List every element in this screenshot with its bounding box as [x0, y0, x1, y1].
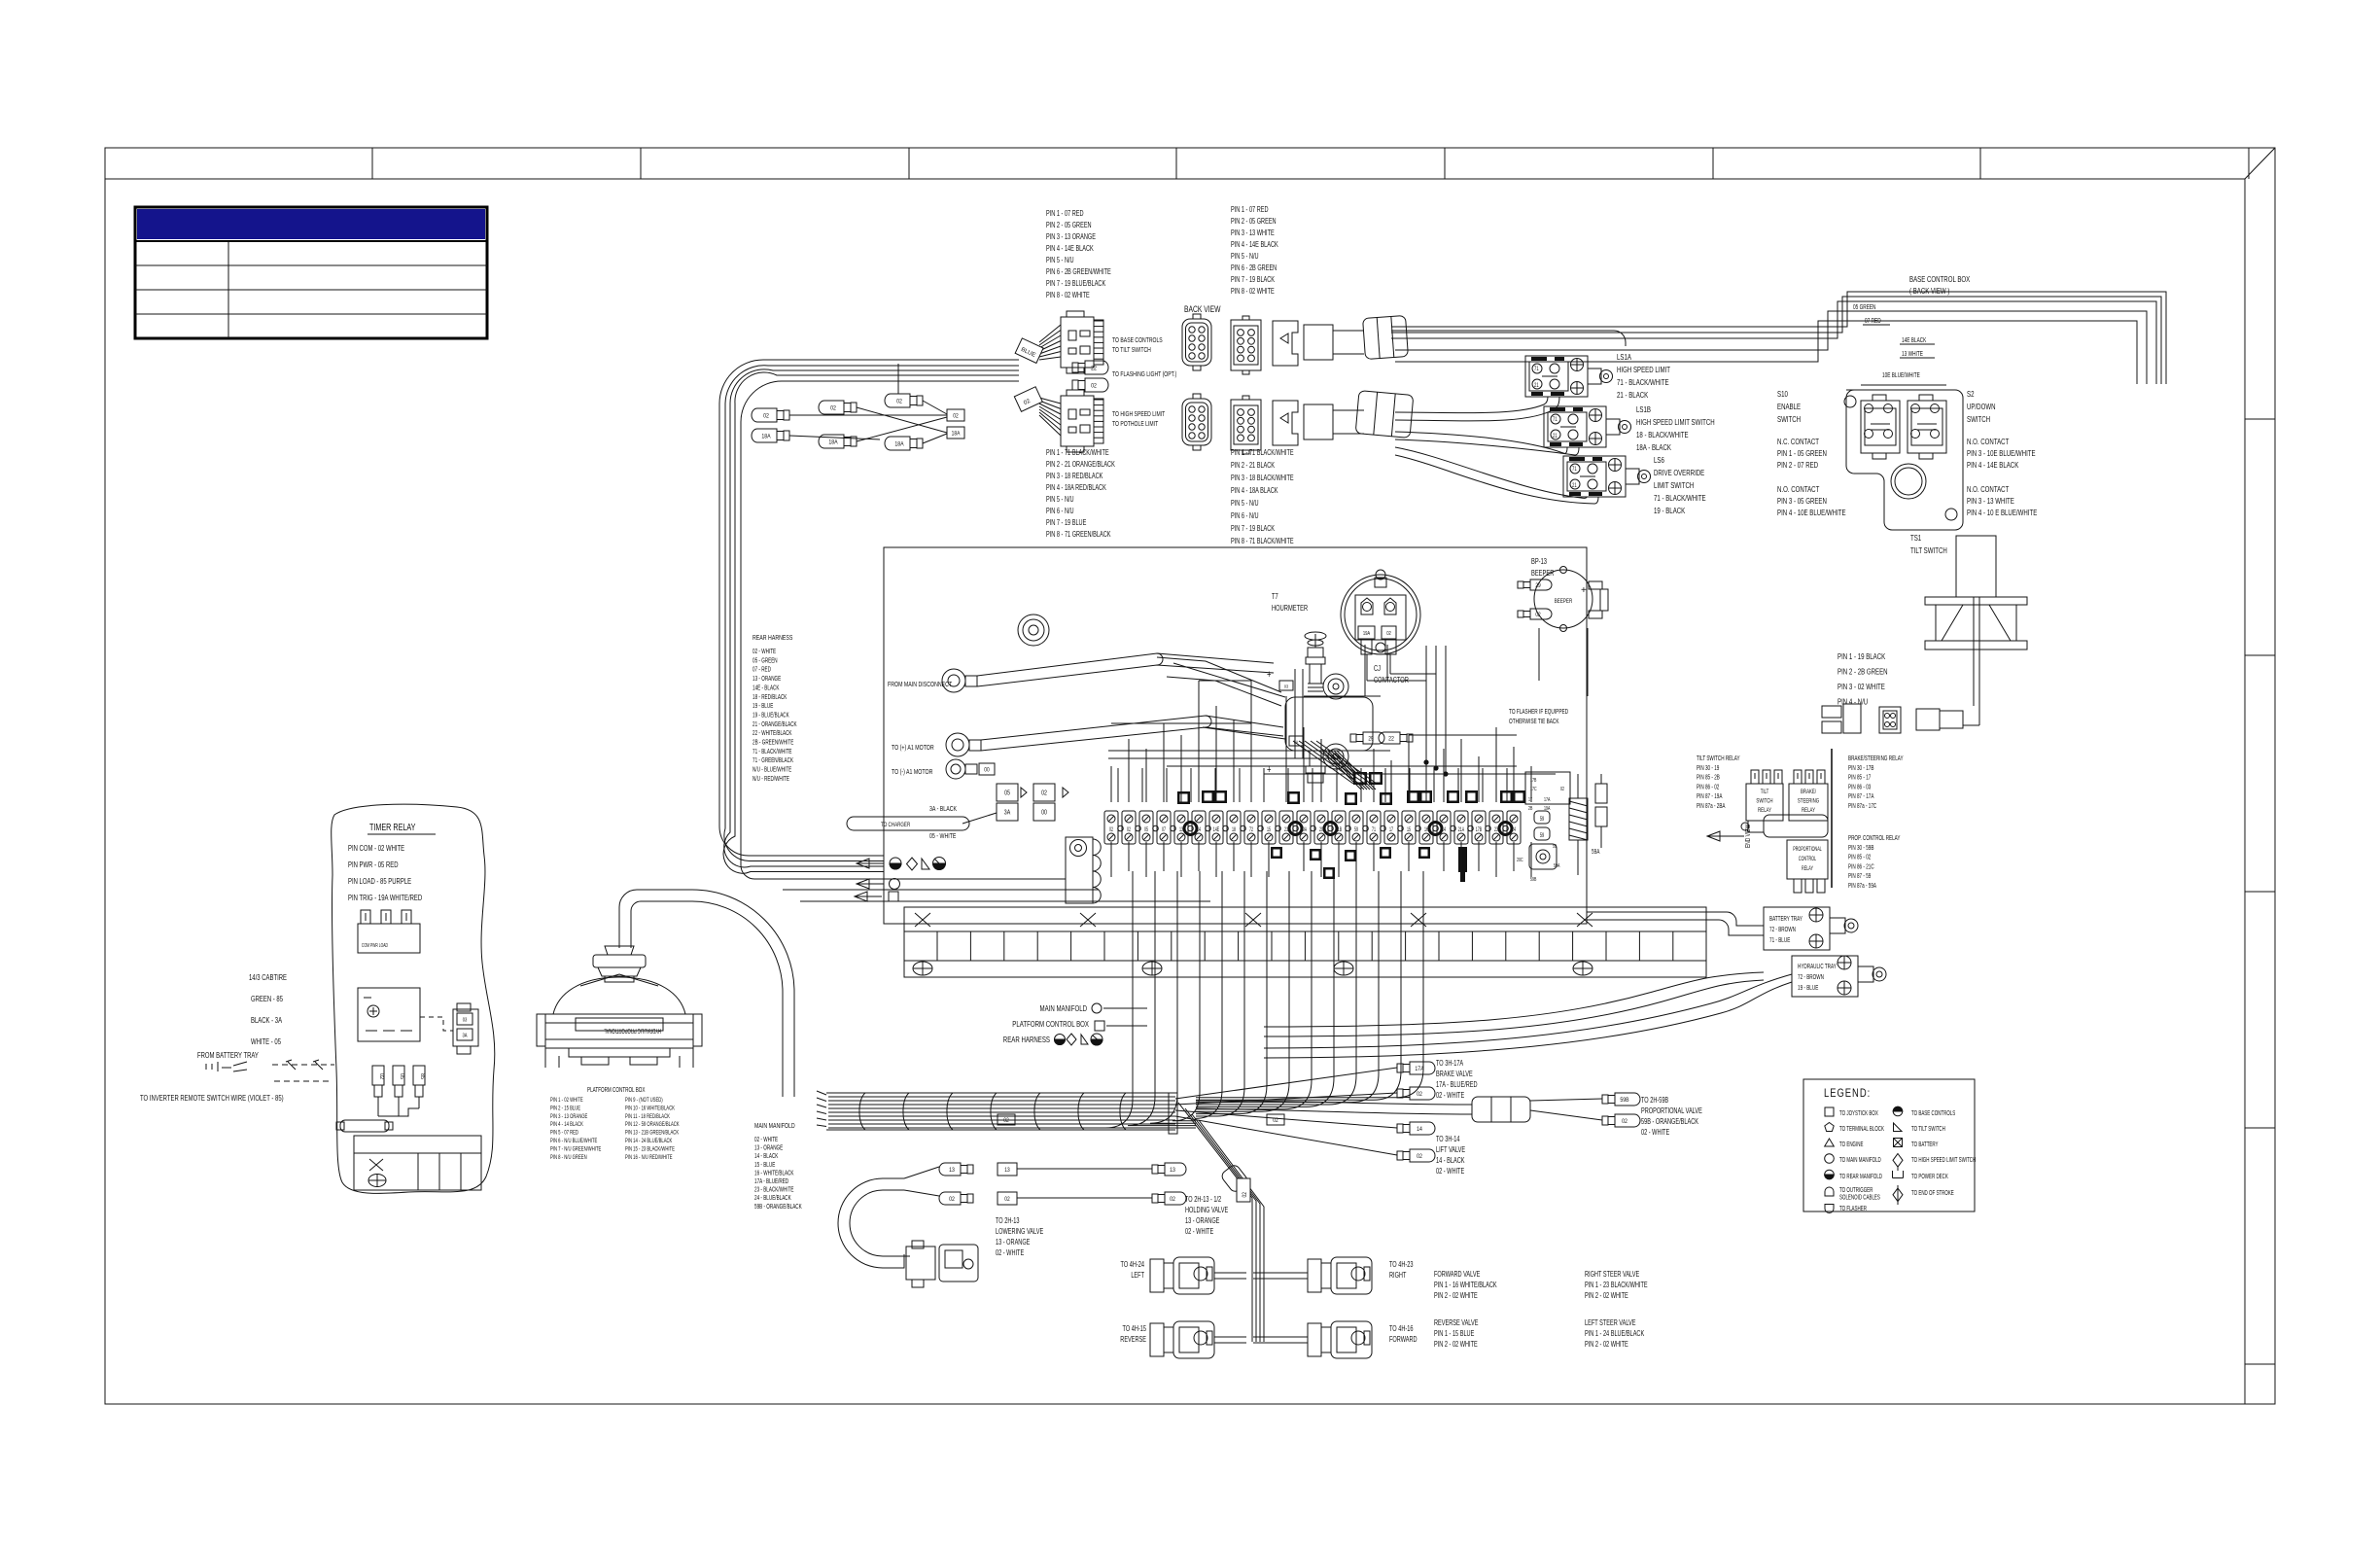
svg-text:WHITE - 05: WHITE - 05	[251, 1036, 281, 1046]
svg-text:72 - BROWN: 72 - BROWN	[1769, 927, 1796, 933]
svg-text:TO OUTRIGGER: TO OUTRIGGER	[1839, 1187, 1873, 1194]
svg-text:PIN 5 - N/U: PIN 5 - N/U	[1231, 500, 1259, 508]
svg-text:19A: 19A	[1544, 805, 1551, 812]
svg-text:13: 13	[1004, 1167, 1009, 1174]
svg-text:HOLDING VALVE: HOLDING VALVE	[1185, 1207, 1229, 1214]
svg-text:N.O. CONTACT: N.O. CONTACT	[1967, 484, 2010, 494]
svg-text:17A: 17A	[1544, 796, 1551, 803]
svg-text:02: 02	[949, 1197, 955, 1204]
svg-text:PIN 6 - N/U: PIN 6 - N/U	[1231, 512, 1259, 520]
svg-text:TILT: TILT	[1761, 789, 1769, 795]
svg-text:02: 02	[830, 405, 836, 412]
svg-text:21 - BLACK: 21 - BLACK	[1617, 390, 1648, 400]
svg-text:FORWARD: FORWARD	[1389, 1336, 1417, 1344]
svg-text:BATTERY TRAY: BATTERY TRAY	[1769, 916, 1802, 923]
svg-text:02 - WHITE: 02 - WHITE	[1185, 1228, 1214, 1236]
svg-text:PIN 5 - N/U: PIN 5 - N/U	[1231, 253, 1259, 261]
svg-text:BRAKE/: BRAKE/	[1801, 789, 1816, 795]
svg-text:TO JOYSTICK BOX: TO JOYSTICK BOX	[1839, 1110, 1878, 1117]
svg-text:PIN 2 - 02 WHITE: PIN 2 - 02 WHITE	[1585, 1292, 1628, 1300]
svg-text:PIN 6 - 2B GREEN: PIN 6 - 2B GREEN	[1231, 264, 1277, 272]
svg-text:PIN 4 - 14E BLACK: PIN 4 - 14E BLACK	[1046, 245, 1094, 253]
svg-text:TO 2H-13 - 1/2: TO 2H-13 - 1/2	[1185, 1196, 1221, 1204]
svg-text:02: 02	[1417, 1092, 1422, 1099]
svg-text:PIN 2 - 05 GREEN: PIN 2 - 05 GREEN	[1231, 218, 1277, 226]
svg-text:PIN 85 - 17: PIN 85 - 17	[1848, 775, 1871, 782]
svg-text:PIN 2 - 02 WHITE: PIN 2 - 02 WHITE	[1585, 1341, 1628, 1349]
svg-text:PIN PWR - 05 RED: PIN PWR - 05 RED	[348, 860, 399, 869]
svg-text:PIN 5 - N/U: PIN 5 - N/U	[1046, 496, 1074, 504]
svg-text:02 - WHITE: 02 - WHITE	[754, 1137, 778, 1143]
svg-text:PIN 9 - (NOT USED): PIN 9 - (NOT USED)	[625, 1097, 663, 1104]
svg-text:14 - BLACK: 14 - BLACK	[1436, 1157, 1465, 1165]
svg-text:PIN 5 - N/U: PIN 5 - N/U	[1046, 257, 1074, 264]
svg-text:PIN 2 - 02 WHITE: PIN 2 - 02 WHITE	[1434, 1292, 1478, 1300]
svg-text:COM PWR LOAD: COM PWR LOAD	[362, 942, 389, 948]
svg-text:07: 07	[1162, 826, 1166, 833]
svg-text:SWITCH: SWITCH	[1777, 414, 1801, 424]
svg-text:PIN 3 - 18 RED/BLACK: PIN 3 - 18 RED/BLACK	[1046, 473, 1103, 480]
svg-text:PIN 2 - 21 BLACK: PIN 2 - 21 BLACK	[1231, 462, 1275, 470]
svg-text:TIMER RELAY: TIMER RELAY	[369, 822, 416, 832]
svg-text:02: 02	[953, 413, 958, 420]
svg-text:17: 17	[1528, 796, 1532, 803]
svg-text:TO HIGH SPEED LIMIT: TO HIGH SPEED LIMIT	[1112, 410, 1165, 418]
svg-text:05: 05	[1004, 790, 1010, 797]
svg-text:PIN 1 - 23 BLACK/WHITE: PIN 1 - 23 BLACK/WHITE	[1585, 1282, 1648, 1289]
svg-text:59B - ORANGE/BLACK: 59B - ORANGE/BLACK	[1641, 1118, 1698, 1126]
svg-text:TO HIGH SPEED LIMIT SWITCH: TO HIGH SPEED LIMIT SWITCH	[1911, 1157, 1976, 1164]
svg-text:PIN 7 - 19 BLUE: PIN 7 - 19 BLUE	[1046, 519, 1087, 527]
svg-text:71 - GREEN/BLACK: 71 - GREEN/BLACK	[752, 757, 793, 764]
svg-text:CONTROL: CONTROL	[1799, 856, 1816, 862]
svg-text:3A - BLACK: 3A - BLACK	[929, 805, 958, 813]
svg-text:PIN 7 - N/U GREEN/WHITE: PIN 7 - N/U GREEN/WHITE	[550, 1146, 601, 1153]
svg-text:19 - BLACK: 19 - BLACK	[1654, 506, 1685, 515]
svg-text:PIN 8 - 02 WHITE: PIN 8 - 02 WHITE	[1231, 288, 1275, 296]
svg-text:PIN COM - 02 WHITE: PIN COM - 02 WHITE	[348, 843, 404, 853]
svg-text:RELAY: RELAY	[1802, 807, 1815, 814]
svg-text:02: 02	[1242, 1192, 1248, 1197]
svg-text:PIN 3 - 13 WHITE: PIN 3 - 13 WHITE	[1967, 496, 2014, 506]
svg-text:PIN 30 - 17B: PIN 30 - 17B	[1848, 765, 1873, 772]
svg-text:PIN 7 - 19 BLACK: PIN 7 - 19 BLACK	[1231, 276, 1275, 284]
svg-text:BRAKE/STEERING RELAY: BRAKE/STEERING RELAY	[1848, 755, 1904, 762]
svg-text:LS1B: LS1B	[1636, 404, 1651, 414]
svg-text:REAR HARNESS: REAR HARNESS	[1003, 1035, 1050, 1044]
svg-text:02 - WHITE: 02 - WHITE	[1436, 1168, 1465, 1176]
svg-text:02: 02	[1386, 630, 1391, 637]
svg-text:TO MAIN MANIFOLD: TO MAIN MANIFOLD	[1839, 1157, 1881, 1164]
svg-text:PIN 3 - 05 GREEN: PIN 3 - 05 GREEN	[1777, 496, 1827, 506]
svg-text:TO END OF STROKE: TO END OF STROKE	[1911, 1190, 1954, 1197]
svg-text:PIN 7 - 19 BLUE/BLACK: PIN 7 - 19 BLUE/BLACK	[1046, 280, 1106, 288]
svg-text:N.C. CONTACT: N.C. CONTACT	[1777, 437, 1819, 446]
svg-text:21 - ORANGE/BLACK: 21 - ORANGE/BLACK	[752, 721, 797, 728]
svg-text:18 - BLACK/WHITE: 18 - BLACK/WHITE	[1636, 430, 1689, 439]
svg-text:22: 22	[1388, 736, 1394, 743]
svg-text:21: 21	[1553, 433, 1557, 439]
svg-text:05 - WHITE: 05 - WHITE	[929, 832, 957, 840]
svg-text:HYDRAULIC PROPORTIONAL: HYDRAULIC PROPORTIONAL	[604, 1027, 661, 1034]
svg-text:PIN 4 - 18A RED/BLACK: PIN 4 - 18A RED/BLACK	[1046, 484, 1106, 492]
svg-text:17A - BLUE/RED: 17A - BLUE/RED	[754, 1178, 788, 1185]
svg-text:PIN 30 - 59B: PIN 30 - 59B	[1848, 845, 1873, 852]
svg-text:02 - WHITE: 02 - WHITE	[752, 649, 776, 655]
svg-text:FORWARD VALVE: FORWARD VALVE	[1434, 1271, 1481, 1279]
svg-text:PIN 1 - 15 BLUE: PIN 1 - 15 BLUE	[1434, 1330, 1475, 1338]
svg-text:PIN 87a - 59A: PIN 87a - 59A	[1848, 883, 1876, 890]
svg-text:15 - BLUE: 15 - BLUE	[754, 1162, 775, 1169]
svg-text:59: 59	[1540, 816, 1544, 823]
svg-text:22 - WHITE/BLACK: 22 - WHITE/BLACK	[752, 730, 792, 737]
svg-text:PIN 86 - 03: PIN 86 - 03	[1848, 785, 1872, 791]
svg-text:PIN 3 - 13 ORANGE: PIN 3 - 13 ORANGE	[1046, 233, 1096, 241]
svg-text:PIN 4 - 10E BLUE/WHITE: PIN 4 - 10E BLUE/WHITE	[1777, 508, 1846, 517]
svg-text:71: 71	[1534, 366, 1539, 372]
svg-text:3A: 3A	[1004, 809, 1011, 817]
svg-text:LEGEND:: LEGEND:	[1824, 1087, 1871, 1100]
svg-text:CJ: CJ	[1374, 665, 1381, 673]
svg-text:05: 05	[399, 1073, 404, 1079]
svg-text:SOLENOID CABLES: SOLENOID CABLES	[1839, 1195, 1880, 1202]
svg-text:BASE CONTROL BOX: BASE CONTROL BOX	[1909, 274, 1970, 284]
svg-text:71 - BLUE: 71 - BLUE	[1769, 937, 1790, 944]
svg-text:14E BLACK: 14E BLACK	[1902, 337, 1926, 344]
svg-text:13 WHITE: 13 WHITE	[1902, 351, 1923, 358]
svg-text:17: 17	[1389, 826, 1393, 833]
svg-text:PIN 8 - 71 GREEN/BLACK: PIN 8 - 71 GREEN/BLACK	[1046, 531, 1111, 539]
svg-text:BRAKE VALVE: BRAKE VALVE	[1436, 1071, 1473, 1078]
svg-text:24 - BLUE/BLACK: 24 - BLUE/BLACK	[754, 1195, 791, 1202]
svg-text:TO 2H-13: TO 2H-13	[996, 1217, 1020, 1225]
svg-text:14/3 CABTIRE: 14/3 CABTIRE	[249, 972, 287, 982]
svg-text:PROPORTIONAL VALVE: PROPORTIONAL VALVE	[1641, 1107, 1702, 1115]
svg-text:59B - ORANGE/BLACK: 59B - ORANGE/BLACK	[754, 1204, 802, 1211]
svg-text:85: 85	[419, 1073, 425, 1079]
svg-text:BLACK - 3A: BLACK - 3A	[251, 1015, 282, 1025]
svg-text:PIN 1 - 07 RED: PIN 1 - 07 RED	[1046, 210, 1084, 218]
svg-text:17B: 17B	[1476, 826, 1483, 833]
svg-text:FROM BATTERY TRAY: FROM BATTERY TRAY	[197, 1050, 259, 1060]
svg-text:LIFT VALVE: LIFT VALVE	[1436, 1146, 1465, 1154]
svg-text:LS1A: LS1A	[1617, 352, 1631, 362]
svg-text:02: 02	[1003, 1117, 1008, 1124]
svg-text:TO FLASHING LIGHT (OPT.): TO FLASHING LIGHT (OPT.)	[1112, 370, 1176, 378]
svg-text:PIN 1 - 24 BLUE/BLACK: PIN 1 - 24 BLUE/BLACK	[1585, 1330, 1645, 1338]
svg-text:TO BATTERY: TO BATTERY	[1911, 1141, 1939, 1148]
svg-text:PIN 87 - 19A: PIN 87 - 19A	[1697, 793, 1722, 800]
svg-text:02: 02	[1170, 1197, 1175, 1204]
svg-text:PIN 5 - 07 RED: PIN 5 - 07 RED	[550, 1130, 578, 1137]
svg-text:LOWERING VALVE: LOWERING VALVE	[996, 1228, 1043, 1236]
svg-text:17A: 17A	[1415, 1067, 1423, 1073]
svg-text:PIN 2 - 05 GREEN: PIN 2 - 05 GREEN	[1046, 222, 1092, 229]
svg-text:PIN 11 - 18 RED/BLACK: PIN 11 - 18 RED/BLACK	[625, 1113, 670, 1120]
svg-text:59A: 59A	[1592, 849, 1599, 856]
svg-text:TS1: TS1	[1910, 533, 1921, 543]
svg-text:17A - BLUE/RED: 17A - BLUE/RED	[1436, 1081, 1478, 1089]
svg-text:03: 03	[1284, 684, 1289, 689]
svg-text:PIN 4 - 14 BLACK: PIN 4 - 14 BLACK	[550, 1121, 583, 1128]
svg-text:RIGHT STEER VALVE: RIGHT STEER VALVE	[1585, 1271, 1640, 1279]
svg-text:02: 02	[378, 1073, 384, 1079]
svg-text:TO FLASHER IF EQUIPPED: TO FLASHER IF EQUIPPED	[1509, 709, 1569, 716]
svg-text:STEERING: STEERING	[1798, 798, 1819, 805]
svg-text:71: 71	[1572, 466, 1577, 473]
svg-text:PIN 3 - 18 BLACK/WHITE: PIN 3 - 18 BLACK/WHITE	[1231, 474, 1294, 482]
svg-text:PIN 3 - 13 ORANGE: PIN 3 - 13 ORANGE	[550, 1113, 587, 1120]
svg-text:PIN 13 - 21B GREEN/BLACK: PIN 13 - 21B GREEN/BLACK	[625, 1130, 679, 1137]
svg-text:59B: 59B	[1620, 1098, 1628, 1105]
svg-text:PIN 16 - N/U RED/WHITE: PIN 16 - N/U RED/WHITE	[625, 1154, 673, 1161]
svg-text:18A: 18A	[894, 441, 903, 448]
svg-text:2B: 2B	[1528, 805, 1532, 812]
svg-text:10E BLUE/WHITE: 10E BLUE/WHITE	[1882, 372, 1920, 379]
svg-text:02: 02	[896, 399, 902, 405]
svg-text:TO FLASHER: TO FLASHER	[1839, 1206, 1867, 1212]
svg-text:3A: 3A	[462, 1033, 468, 1039]
svg-text:REVERSE: REVERSE	[1120, 1336, 1146, 1344]
svg-text:02 - WHITE: 02 - WHITE	[996, 1249, 1025, 1257]
svg-text:59: 59	[1553, 843, 1557, 850]
svg-text:N.O. CONTACT: N.O. CONTACT	[1967, 437, 2010, 446]
svg-text:LEFT: LEFT	[1131, 1272, 1144, 1280]
svg-text:HIGH SPEED LIMIT: HIGH SPEED LIMIT	[1617, 365, 1670, 374]
svg-text:UP/DOWN: UP/DOWN	[1967, 402, 1996, 411]
svg-text:13 - ORANGE: 13 - ORANGE	[752, 676, 781, 683]
svg-text:PIN 87a - 17C: PIN 87a - 17C	[1848, 803, 1877, 810]
svg-text:N/U - RED/WHITE: N/U - RED/WHITE	[752, 776, 789, 783]
svg-text:TO POTHOLE LIMIT: TO POTHOLE LIMIT	[1112, 420, 1158, 428]
svg-text:71: 71	[1372, 826, 1376, 833]
svg-text:71 - BLACK/WHITE: 71 - BLACK/WHITE	[752, 749, 792, 755]
svg-text:TO TERMINAL BLOCK: TO TERMINAL BLOCK	[1839, 1126, 1884, 1133]
svg-text:13 - ORANGE: 13 - ORANGE	[996, 1239, 1031, 1247]
svg-text:+: +	[1267, 669, 1272, 682]
svg-text:19 - BLUE/BLACK: 19 - BLUE/BLACK	[752, 713, 789, 720]
svg-text:( BACK VIEW ): ( BACK VIEW )	[1909, 286, 1949, 296]
svg-text:20C: 20C	[1517, 857, 1523, 863]
svg-text:29: 29	[1368, 736, 1373, 743]
svg-text:PLATFORM CONTROL BOX: PLATFORM CONTROL BOX	[587, 1087, 646, 1094]
svg-text:13: 13	[1170, 1168, 1175, 1175]
svg-text:PIN 10 - 16 WHITE/BLACK: PIN 10 - 16 WHITE/BLACK	[625, 1106, 675, 1112]
svg-text:29: 29	[1535, 583, 1540, 590]
svg-text:TO 3H-14: TO 3H-14	[1436, 1136, 1460, 1143]
svg-text:PIN 1 - 02 WHITE: PIN 1 - 02 WHITE	[550, 1097, 583, 1104]
svg-text:PIN 4 - 10 E BLUE/WHITE: PIN 4 - 10 E BLUE/WHITE	[1967, 508, 2037, 517]
svg-text:TO BASE CONTROLS: TO BASE CONTROLS	[1911, 1110, 1955, 1117]
svg-text:71 - BLACK/WHITE: 71 - BLACK/WHITE	[1617, 377, 1669, 387]
svg-text:TO 4H-15: TO 4H-15	[1123, 1325, 1147, 1333]
svg-text:TO ENGINE: TO ENGINE	[1839, 1141, 1863, 1148]
svg-text:MAIN MANIFOLD: MAIN MANIFOLD	[754, 1122, 795, 1130]
svg-text:13 - ORANGE: 13 - ORANGE	[754, 1145, 783, 1152]
svg-text:23 - BLACK/WHITE: 23 - BLACK/WHITE	[754, 1187, 794, 1194]
svg-text:PIN 2 - 07 RED: PIN 2 - 07 RED	[1777, 460, 1818, 470]
svg-text:TO INVERTER REMOTE SWITCH WIRE: TO INVERTER REMOTE SWITCH WIRE (VIOLET -…	[140, 1093, 284, 1103]
svg-text:02 - WHITE: 02 - WHITE	[1436, 1092, 1465, 1100]
svg-text:PIN 85 - 2B: PIN 85 - 2B	[1697, 775, 1720, 782]
svg-text:PIN 12 - 59 ORANGE/BLACK: PIN 12 - 59 ORANGE/BLACK	[625, 1121, 680, 1128]
svg-text:RELAY: RELAY	[1758, 807, 1771, 814]
svg-text:TILT SWITCH: TILT SWITCH	[1910, 545, 1947, 555]
svg-text:07 - RED: 07 - RED	[752, 667, 771, 674]
svg-text:19 - BLUE: 19 - BLUE	[1798, 985, 1818, 992]
svg-text:PIN 3 - 13 WHITE: PIN 3 - 13 WHITE	[1231, 229, 1275, 237]
svg-text:02: 02	[1560, 786, 1564, 792]
svg-text:PIN 4 - N/U: PIN 4 - N/U	[1837, 696, 1868, 706]
svg-text:13 - ORANGE: 13 - ORANGE	[1185, 1217, 1220, 1225]
svg-text:59: 59	[1354, 826, 1358, 833]
svg-text:TO 3H-17A: TO 3H-17A	[1436, 1060, 1463, 1068]
svg-text:02: 02	[1622, 1119, 1627, 1126]
svg-text:PIN 87 - 59: PIN 87 - 59	[1848, 873, 1872, 880]
svg-text:TO POWER DECK: TO POWER DECK	[1911, 1174, 1948, 1180]
svg-text:PIN 1 - 71 BLACK/WHITE: PIN 1 - 71 BLACK/WHITE	[1046, 449, 1109, 457]
svg-text:2B - GREEN/WHITE: 2B - GREEN/WHITE	[752, 740, 793, 747]
svg-text:02: 02	[763, 413, 769, 420]
svg-text:02: 02	[1535, 613, 1540, 619]
svg-text:PIN 87a - 2BA: PIN 87a - 2BA	[1697, 803, 1726, 810]
svg-text:SWITCH: SWITCH	[1756, 798, 1772, 805]
svg-text:PIN 3 - 10E BLUE/WHITE: PIN 3 - 10E BLUE/WHITE	[1967, 448, 2036, 458]
svg-text:02: 02	[1091, 383, 1097, 390]
svg-text:PIN 3 - 02 WHITE: PIN 3 - 02 WHITE	[1837, 682, 1885, 691]
svg-text:TO TILT SWITCH: TO TILT SWITCH	[1911, 1126, 1945, 1133]
svg-text:05 GREEN: 05 GREEN	[1853, 304, 1875, 311]
svg-text:TO (+) A1 MOTOR: TO (+) A1 MOTOR	[892, 744, 934, 752]
svg-text:HYDRAULIC TRAY: HYDRAULIC TRAY	[1798, 964, 1837, 970]
svg-text:HIGH SPEED LIMIT SWITCH: HIGH SPEED LIMIT SWITCH	[1636, 417, 1715, 427]
svg-text:PIN 1 - 05 GREEN: PIN 1 - 05 GREEN	[1777, 448, 1827, 458]
svg-text:71 - BLACK/WHITE: 71 - BLACK/WHITE	[1654, 493, 1706, 503]
svg-text:BEEPER: BEEPER	[1531, 570, 1554, 578]
svg-text:TILT SWITCH RELAY: TILT SWITCH RELAY	[1697, 755, 1740, 762]
svg-text:N/U - BLUE/WHITE: N/U - BLUE/WHITE	[752, 767, 791, 774]
svg-text:02 - WHITE: 02 - WHITE	[1641, 1129, 1670, 1137]
svg-text:PIN 4 - 18A BLACK: PIN 4 - 18A BLACK	[1231, 487, 1278, 495]
svg-text:OTHERWISE TIE BACK: OTHERWISE TIE BACK	[1509, 719, 1559, 725]
svg-text:PIN 6 - N/U BLUE/WHITE: PIN 6 - N/U BLUE/WHITE	[550, 1138, 598, 1144]
svg-text:22: 22	[1091, 366, 1097, 372]
svg-text:19 - BLUE: 19 - BLUE	[752, 703, 773, 710]
svg-text:14: 14	[1417, 1127, 1422, 1134]
svg-text:PIN 2 - 02 WHITE: PIN 2 - 02 WHITE	[1434, 1341, 1478, 1349]
svg-text:PIN 8 - 02 WHITE: PIN 8 - 02 WHITE	[1046, 292, 1090, 299]
svg-text:PIN TRIG - 19A WHITE/RED: PIN TRIG - 19A WHITE/RED	[348, 893, 422, 902]
svg-text:S10: S10	[1777, 389, 1788, 399]
svg-text:PIN 4 - 14E BLACK: PIN 4 - 14E BLACK	[1967, 460, 2018, 470]
svg-text:05: 05	[1144, 826, 1148, 833]
svg-text:TO REAR MANIFOLD: TO REAR MANIFOLD	[1839, 1174, 1883, 1180]
svg-text:18 - RED/BLACK: 18 - RED/BLACK	[752, 694, 787, 701]
svg-text:PIN 8 - N/U GREEN: PIN 8 - N/U GREEN	[550, 1154, 587, 1161]
svg-text:SWITCH: SWITCH	[1967, 414, 1990, 424]
svg-text:14 - BLACK: 14 - BLACK	[754, 1153, 778, 1160]
svg-text:DRIVE OVERRIDE: DRIVE OVERRIDE	[1654, 468, 1704, 477]
svg-text:BACK VIEW: BACK VIEW	[1184, 304, 1221, 314]
svg-text:TO BASE CONTROLS: TO BASE CONTROLS	[1112, 336, 1163, 344]
svg-text:PIN 1 - 07 RED: PIN 1 - 07 RED	[1231, 206, 1269, 214]
svg-text:14E: 14E	[1213, 826, 1220, 833]
svg-text:TO 4H-23: TO 4H-23	[1389, 1261, 1414, 1269]
svg-text:PROPORTIONAL: PROPORTIONAL	[1793, 846, 1822, 853]
svg-text:PIN 4 - 14E BLACK: PIN 4 - 14E BLACK	[1231, 241, 1278, 249]
svg-text:+: +	[1581, 585, 1587, 596]
svg-text:PIN 1 - 19 BLACK: PIN 1 - 19 BLACK	[1837, 651, 1885, 661]
svg-text:RIGHT: RIGHT	[1389, 1272, 1407, 1280]
svg-text:07 RED: 07 RED	[1865, 318, 1881, 325]
svg-text:PIN 30 - 19: PIN 30 - 19	[1697, 765, 1720, 772]
svg-text:21A: 21A	[1458, 826, 1465, 833]
svg-text:TO 4H-16: TO 4H-16	[1389, 1325, 1414, 1333]
svg-text:00: 00	[1041, 809, 1047, 817]
svg-text:TO TILT SWITCH: TO TILT SWITCH	[1112, 346, 1151, 354]
svg-text:14E - BLACK: 14E - BLACK	[752, 685, 779, 692]
svg-text:18: 18	[1232, 826, 1236, 833]
svg-text:TO CHARGER: TO CHARGER	[881, 822, 910, 828]
svg-text:71: 71	[1553, 416, 1557, 423]
svg-text:02: 02	[1004, 1196, 1009, 1203]
svg-text:59: 59	[1540, 832, 1544, 839]
svg-text:59B: 59B	[1530, 876, 1536, 883]
svg-text:RELAY: RELAY	[1802, 865, 1813, 872]
svg-text:LIMIT SWITCH: LIMIT SWITCH	[1654, 480, 1694, 490]
svg-text:PIN 2 - 15 BLUE: PIN 2 - 15 BLUE	[550, 1106, 580, 1112]
svg-text:MAIN MANIFOLD: MAIN MANIFOLD	[1039, 1003, 1087, 1013]
svg-text:TO 4H-24: TO 4H-24	[1121, 1261, 1145, 1269]
svg-text:59A: 59A	[1554, 862, 1560, 869]
svg-text:LEFT STEER VALVE: LEFT STEER VALVE	[1585, 1319, 1636, 1327]
svg-text:02: 02	[1417, 1154, 1422, 1161]
svg-text:PIN 2 - 2B GREEN: PIN 2 - 2B GREEN	[1837, 666, 1888, 676]
svg-text:PIN 7 - 19 BLACK: PIN 7 - 19 BLACK	[1231, 525, 1275, 533]
svg-text:72: 72	[1249, 826, 1253, 833]
svg-text:BP-13: BP-13	[1531, 558, 1547, 566]
svg-text:LS6: LS6	[1654, 455, 1664, 465]
svg-text:T7: T7	[1272, 593, 1278, 601]
svg-text:21: 21	[1572, 482, 1577, 489]
svg-text:TO (-) A1 MOTOR: TO (-) A1 MOTOR	[892, 768, 933, 776]
svg-text:16 - WHITE/BLACK: 16 - WHITE/BLACK	[754, 1171, 794, 1177]
svg-text:PIN 1 - 16 WHITE/BLACK: PIN 1 - 16 WHITE/BLACK	[1434, 1282, 1497, 1289]
svg-text:PIN 6 - N/U: PIN 6 - N/U	[1046, 508, 1074, 515]
svg-text:72 - BROWN: 72 - BROWN	[1798, 974, 1824, 981]
svg-text:REVERSE VALVE: REVERSE VALVE	[1434, 1319, 1479, 1327]
svg-text:ENABLE: ENABLE	[1777, 402, 1801, 411]
svg-text:PLATFORM CONTROL BOX: PLATFORM CONTROL BOX	[1012, 1019, 1089, 1029]
svg-text:03: 03	[463, 1017, 468, 1024]
svg-text:15: 15	[1267, 826, 1271, 833]
svg-text:HOURMETER: HOURMETER	[1272, 605, 1308, 613]
svg-text:13: 13	[949, 1168, 955, 1175]
svg-text:TO 2H-59B: TO 2H-59B	[1641, 1097, 1668, 1105]
svg-text:PIN 8 - 71 BLACK/WHITE: PIN 8 - 71 BLACK/WHITE	[1231, 538, 1294, 545]
svg-text:GREEN - 85: GREEN - 85	[251, 994, 283, 1003]
svg-text:02: 02	[1109, 826, 1113, 833]
svg-text:PIN 87 - 17A: PIN 87 - 17A	[1848, 793, 1873, 800]
svg-text:PIN 86 - 02: PIN 86 - 02	[1697, 785, 1719, 791]
svg-text:18A: 18A	[828, 439, 837, 446]
svg-text:PIN 2 - 21 ORANGE/BLACK: PIN 2 - 21 ORANGE/BLACK	[1046, 461, 1115, 469]
svg-text:21: 21	[1534, 382, 1539, 389]
svg-text:BEEPER: BEEPER	[1555, 598, 1572, 605]
svg-text:02: 02	[1041, 790, 1047, 797]
svg-text:18A: 18A	[952, 431, 961, 438]
svg-text:REAR HARNESS: REAR HARNESS	[752, 634, 793, 642]
